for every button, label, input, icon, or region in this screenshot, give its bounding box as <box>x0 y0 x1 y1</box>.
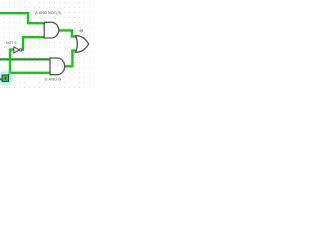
and-gate U1 body <box>44 22 58 38</box>
input pin S <box>2 75 9 81</box>
wire S vertical from pin to NOT input <box>10 50 14 74</box>
pin S value mark <box>5 77 7 80</box>
wire pin elbow <box>8 73 10 75</box>
wire NOT-S to AND1 lower input <box>23 37 44 50</box>
not-gate U3 triangle <box>14 47 20 53</box>
junction B wire end node <box>48 58 51 61</box>
wire B (input B, low, dark green) <box>0 58 50 60</box>
wire S horizontal to AND2 lower input <box>9 72 50 74</box>
selection handle <box>0 78 2 80</box>
svg-text:NOT S: NOT S <box>6 41 17 45</box>
not-gate U3 bubble <box>19 49 21 51</box>
wire AND1 output to OR upper input <box>58 30 75 36</box>
background <box>0 0 90 90</box>
junction S node <box>9 71 12 74</box>
or-gate U4 body <box>76 36 89 53</box>
svg-text:S AND B: S AND B <box>45 78 62 82</box>
wire NOT gate output stub <box>22 49 24 51</box>
wire A (input A, high) <box>0 13 44 23</box>
svg-text:A AND NOT(S): A AND NOT(S) <box>35 11 61 15</box>
svg-text:OR: OR <box>79 28 83 33</box>
selection halo around pin S <box>0 69 14 87</box>
wire AND2 output to OR lower input <box>64 51 76 67</box>
grid dots <box>0 0 90 90</box>
and-gate U2 body <box>50 58 65 75</box>
